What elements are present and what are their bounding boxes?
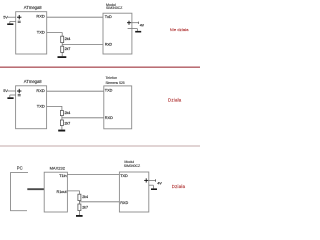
pin label TxD (module row 1)	[105, 15, 112, 19]
separator line 2	[0, 145, 200, 147]
svg-text:RXD: RXD	[105, 116, 113, 120]
pin label RXD (phone row 2)	[105, 116, 113, 120]
pin label R1out (MAX232)	[56, 190, 67, 194]
pin label RXD (ATmega8 row 1)	[36, 14, 45, 19]
wire MAX232 R1out to divider (row 3)	[67, 191, 79, 194]
IC box Modul SIM340CZ (row 3)	[119, 172, 148, 212]
wire 2k7 to ground (row 1)	[61, 52, 63, 56]
ground (divider row 2)	[58, 130, 65, 132]
svg-text:2k4: 2k4	[82, 195, 88, 199]
note Dziala (row 3, red)	[172, 184, 186, 189]
svg-text:RXD: RXD	[36, 88, 45, 93]
pin label RxD (module row 1)	[105, 42, 113, 46]
pin label RXD (module row 3)	[120, 201, 128, 205]
svg-text:RxD: RxD	[105, 42, 113, 46]
wire thick PC to MAX232 (serial cable)	[27, 188, 44, 190]
resistor 2k4 (row 3)	[78, 194, 88, 200]
node divider (row 1) and wire to module RxD	[62, 43, 103, 47]
label Modul SIM340CZ (row 1)	[106, 3, 123, 10]
svg-text:4V: 4V	[140, 24, 145, 28]
svg-text:RXD: RXD	[120, 201, 128, 205]
svg-text:SIM340CZ: SIM340CZ	[124, 164, 141, 168]
svg-text:4V: 4V	[157, 182, 162, 186]
battery 4V (module row 1)	[127, 21, 145, 31]
label ATmega8 (row 1)	[24, 5, 43, 10]
wire 2k7 to ground (row 3)	[78, 211, 80, 216]
wire 2k7 to ground (row 2)	[61, 126, 63, 130]
battery 5V (row 1)	[3, 15, 21, 23]
IC box Modul SIM340CZ (row 1)	[103, 13, 132, 54]
note Dziala (row 2, red)	[168, 97, 182, 102]
svg-text:2k7: 2k7	[65, 47, 71, 51]
wire ATmega8 TXD to divider (row 1)	[47, 33, 63, 37]
svg-text:TXD: TXD	[37, 104, 45, 109]
svg-text:PC: PC	[17, 166, 23, 171]
node divider (row 2) and wire to phone RXD	[62, 116, 104, 120]
resistor 2k7 (row 2)	[60, 120, 70, 126]
resistor 2k4 (row 1)	[61, 36, 71, 42]
svg-text:2k7: 2k7	[82, 205, 88, 209]
svg-text:2k4: 2k4	[65, 111, 71, 115]
IC box ATmega8 (row 1)	[16, 12, 47, 54]
wire ATmega8 RXD to phone TXD (row 2)	[47, 90, 104, 92]
svg-text:Działa: Działa	[168, 97, 182, 102]
node divider (row 3) and wire to module RXD	[79, 201, 119, 205]
box PC (row 3, open right side)	[11, 173, 29, 211]
svg-text:TXD: TXD	[105, 89, 113, 93]
svg-text:Telefon: Telefon	[106, 76, 118, 80]
svg-text:R1out: R1out	[56, 190, 67, 194]
resistor 2k7 (row 1)	[61, 46, 71, 52]
svg-text:2k4: 2k4	[65, 37, 71, 41]
pin label TXD (ATmega8 row 2)	[37, 104, 45, 109]
resistor 2k7 (row 3)	[78, 204, 88, 211]
svg-text:ATmega8: ATmega8	[24, 5, 43, 10]
pin label TXD (ATmega8 row 1)	[37, 29, 45, 34]
svg-text:TXD: TXD	[37, 29, 45, 34]
resistor 2k4 (row 2)	[60, 111, 70, 116]
wire ATmega8 TXD to divider (row 2)	[47, 106, 62, 110]
battery 4V (module row 3)	[144, 178, 162, 188]
svg-text:TxD: TxD	[105, 15, 112, 19]
svg-text:ATmega8: ATmega8	[24, 79, 43, 84]
svg-text:T1in: T1in	[59, 174, 66, 178]
svg-text:TXD: TXD	[120, 174, 128, 178]
pin label RXD (ATmega8 row 2)	[36, 88, 45, 93]
pin label TXD (module row 3)	[120, 174, 128, 178]
pin label TXD (phone row 2)	[105, 89, 113, 93]
wire MAX232 T1in to module TXD (row 3)	[67, 174, 119, 176]
svg-text:2k7: 2k7	[65, 121, 71, 125]
separator line 1	[0, 66, 200, 68]
label Telefon Siemens S25 (row 2)	[106, 76, 125, 85]
box Telefon Siemens S25 (row 2)	[104, 86, 132, 129]
label Modul SIM340CZ (row 3)	[124, 160, 141, 168]
wire ATmega8 RXD to module TxD (row 1)	[47, 16, 103, 18]
ground (battery 4V row 3)	[151, 188, 157, 190]
ground (divider row 3)	[76, 215, 83, 217]
note Nie dziala (row 1, red)	[170, 27, 189, 32]
label PC (row 3)	[17, 166, 23, 171]
svg-text:RXD: RXD	[36, 14, 45, 19]
pin label T1in (MAX232)	[59, 174, 66, 178]
IC box MAX232 (row 3)	[44, 172, 67, 212]
svg-text:Działa: Działa	[172, 184, 186, 189]
svg-text:Nie działa: Nie działa	[170, 27, 189, 32]
ground (battery 5V row 1)	[7, 23, 13, 25]
svg-text:SIM340CZ: SIM340CZ	[106, 6, 123, 10]
svg-text:Siemens S25: Siemens S25	[106, 81, 125, 85]
ground (divider row 1)	[58, 56, 67, 58]
ground (battery 5V row 2)	[7, 97, 13, 99]
label ATmega8 (row 2)	[24, 79, 43, 84]
battery 5V (row 2)	[3, 89, 21, 97]
ground (battery 4V row 1)	[135, 31, 141, 33]
label MAX232 (row 3)	[50, 166, 66, 171]
IC box ATmega8 (row 2)	[16, 86, 47, 129]
svg-text:MAX232: MAX232	[50, 166, 66, 171]
